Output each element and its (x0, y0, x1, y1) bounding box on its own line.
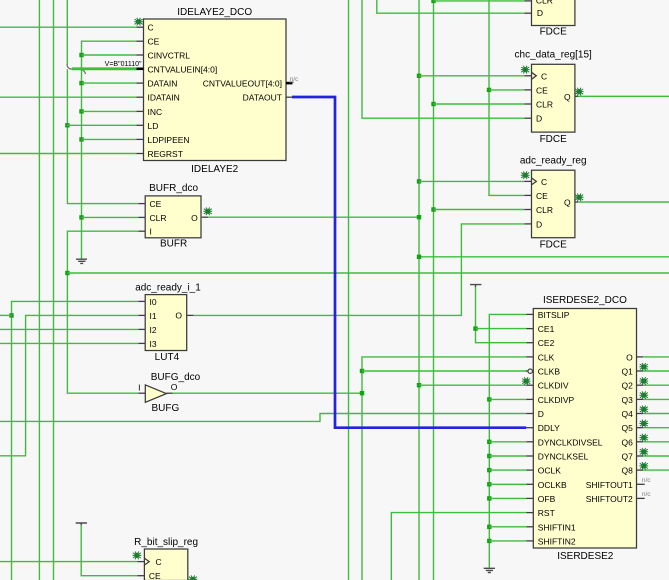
svg-text:CE1: CE1 (538, 324, 555, 334)
junction LD tap (65, 123, 69, 127)
pin stub Q5 (637, 427, 644, 429)
wire from T to CE2 (476, 287, 527, 343)
svg-text:adc_ready_reg: adc_ready_reg (520, 155, 587, 166)
wire Q5 output (643, 427, 669, 429)
pin stub adc CE (525, 194, 532, 196)
wire long net y=273 to right edge (67, 272, 669, 274)
debug bug icon at BUFR O (203, 207, 212, 215)
junction DYNCLKDIVSEL (487, 440, 491, 444)
svg-text:CE: CE (536, 85, 548, 95)
wire Q7 output (643, 455, 669, 457)
svg-text:Q1: Q1 (621, 367, 633, 377)
svg-text:Q7: Q7 (621, 452, 633, 462)
svg-text:CINVCTRL: CINVCTRL (148, 51, 191, 61)
wire I3 row (0, 342, 139, 344)
svg-text:DDLY: DDLY (538, 423, 560, 433)
junction BUFR CLR (79, 215, 83, 219)
debug bug icon at IDELAYE2 C (134, 18, 143, 26)
pin stub SHIFTIN2 (526, 540, 533, 542)
svg-text:C: C (156, 557, 162, 567)
debug bug icon at Q4 (639, 405, 648, 413)
pin stub I3 (139, 342, 146, 344)
pin stub Q1 (637, 370, 644, 372)
pin stub DYNCLKSEL (526, 455, 533, 457)
pin stub CINVCTRL (137, 54, 144, 56)
debug bug icon at R_bit C (133, 552, 142, 560)
svg-text:LUT4: LUT4 (155, 352, 180, 363)
component top partial FDCE (532, 0, 575, 38)
wire Q3 output (643, 398, 669, 400)
wire Q6 output (643, 441, 669, 443)
svg-text:ISERDESE2: ISERDESE2 (557, 551, 614, 562)
pin stub Q4 (637, 413, 644, 415)
pin stub Q8 (637, 469, 644, 471)
junction adc CLR (431, 207, 435, 211)
wire Q1 output (643, 370, 669, 372)
svg-text:RST: RST (538, 508, 555, 518)
pin stub RST (526, 512, 533, 514)
debug bug icon at adc C (521, 171, 530, 179)
pin stub LUT4 O (187, 314, 194, 316)
ground symbol below ISERDESE2 (484, 568, 495, 572)
wire top FDCE CLR row (434, 0, 525, 2)
power tie T left (76, 523, 87, 525)
pin stub chc Q (575, 95, 578, 97)
svg-text:SHIFTOUT2: SHIFTOUT2 (586, 494, 633, 504)
wire I0 row from riser x=11.5 (12, 301, 139, 580)
component R_bit_slip_reg FDCE (134, 537, 198, 580)
svg-text:CE2: CE2 (538, 338, 555, 348)
svg-text:CNTVALUEIN[4:0]: CNTVALUEIN[4:0] (148, 64, 218, 74)
pin stub Q3 (637, 398, 644, 400)
pin stub C (137, 26, 144, 28)
pin stub top FDCE CLR (525, 0, 532, 2)
wire chc Q output (578, 95, 669, 97)
junction BUFG O tap (360, 391, 364, 395)
wire vertical net x=419 (418, 0, 420, 580)
wire BUFG O to clock column (173, 392, 363, 394)
debug bug icon at Q5 (639, 420, 648, 428)
junction CINVCTRL (79, 53, 83, 57)
junction LDPIPEEN (79, 137, 83, 141)
wire adc CLR row (434, 209, 525, 211)
svg-text:OFB: OFB (538, 494, 556, 504)
wire vertical net x=81.5 (CE chain) (82, 41, 137, 258)
junction chc C (417, 74, 421, 78)
pin stub SHIFTOUT2 n/c (637, 497, 645, 499)
pin stub BUFR CE (139, 203, 146, 205)
wire DATAIN row (82, 82, 137, 84)
pin stub I1 (139, 314, 146, 316)
pin stub Q7 (637, 455, 644, 457)
pin stub CE2 (526, 342, 533, 344)
svg-text:BUFR_dco: BUFR_dco (149, 183, 198, 194)
wire INC row (82, 110, 137, 112)
svg-text:I: I (150, 227, 152, 237)
wire SHIFTIN1 row (489, 526, 526, 528)
svg-text:REGRST: REGRST (148, 149, 183, 159)
svg-text:DATAOUT: DATAOUT (243, 93, 282, 103)
svg-text:DYNCLKSEL: DYNCLKSEL (538, 452, 589, 462)
debug bug icon at Q7 (639, 448, 648, 456)
pin stub BITSLIP (526, 313, 533, 315)
wire LUT4 O to adc D (193, 224, 524, 316)
pin stub SHIFTIN1 (526, 526, 533, 528)
junction BUFR O (417, 215, 421, 219)
pin stub LDPIPEEN (137, 138, 144, 140)
pin stub Q2 (637, 384, 644, 386)
svg-text:CLKDIVP: CLKDIVP (538, 395, 575, 405)
svg-text:CLR: CLR (536, 205, 553, 215)
wire Q2 output (643, 384, 669, 386)
svg-text:I2: I2 (150, 325, 157, 335)
svg-text:DATAIN: DATAIN (148, 79, 178, 89)
wire vertical net B x=53.5 (53, 0, 55, 580)
wire Q4 output (643, 413, 669, 415)
svg-text:chc_data_reg[15]: chc_data_reg[15] (515, 49, 593, 60)
pin stub DATAOUT (286, 96, 292, 98)
junction DYNCLKSEL (487, 454, 491, 458)
wire IDATAIN row (0, 96, 137, 98)
wire chc C row (419, 75, 525, 77)
clock mark adc C (532, 178, 537, 185)
pin stub adc CLR (525, 209, 532, 211)
pin stub chc CLR (525, 103, 532, 105)
pin stub SHIFTOUT1 n/c (637, 483, 645, 485)
pin stub IDATAIN (137, 96, 144, 98)
wire from T down to R_bit CE (81, 525, 137, 575)
pin stub CLKB (526, 370, 529, 372)
wire RST net (391, 513, 526, 580)
ground symbol left (76, 259, 87, 263)
wire CINVCTRL row (82, 54, 137, 56)
svg-text:IDATAIN: IDATAIN (148, 93, 180, 103)
pin stub CE (137, 40, 144, 42)
junction SHIFTIN2 (487, 539, 491, 543)
debug bug icon at Q6 (639, 434, 648, 442)
svg-text:C: C (541, 71, 547, 81)
power tie T right (470, 285, 481, 287)
svg-text:OCLK: OCLK (538, 466, 561, 476)
pin stub DYNCLKDIVSEL (526, 441, 533, 443)
pin stub D (526, 413, 533, 415)
svg-text:OCLKB: OCLKB (538, 480, 567, 490)
svg-text:CLKB: CLKB (538, 367, 561, 377)
svg-text:CE: CE (149, 571, 161, 580)
pin stub LD (137, 124, 144, 126)
debug bug icon at CLKDIV (522, 377, 531, 385)
highlighted net DATAOUT to DDLY (blue) (292, 97, 526, 428)
debug bug icon at Q8 (639, 462, 648, 470)
junction chc CLR (431, 102, 435, 106)
svg-text:CE: CE (148, 37, 160, 47)
svg-text:I3: I3 (150, 339, 157, 349)
wire SHIFTIN2 row (489, 540, 526, 542)
wire D net with jog to ISERDES D (0, 414, 526, 422)
svg-text:I: I (138, 383, 140, 393)
svg-text:C: C (148, 23, 154, 33)
wire vertical mid net x=348.5 (348, 0, 350, 580)
bus ripper arc lower (81, 70, 86, 74)
debug bug icon at adc Q (575, 193, 584, 201)
wire BITSLIP to ground column (489, 314, 526, 567)
pin stub I2 (139, 328, 146, 330)
wire I2 row (0, 328, 139, 330)
svg-text:Q8: Q8 (621, 466, 633, 476)
pin stub chc CE (525, 89, 532, 91)
pin stub OCLK (526, 469, 533, 471)
wire stub into I0 riser from left edge (0, 314, 12, 316)
pin stub I0 (139, 300, 146, 302)
svg-text:SHIFTOUT1: SHIFTOUT1 (586, 480, 633, 490)
wire chc CE row (489, 89, 525, 91)
bus ripper arc upper (67, 64, 72, 69)
pin stub O right (637, 356, 644, 358)
svg-text:n/c: n/c (642, 477, 651, 484)
junction INC (79, 109, 83, 113)
wire vertical net x=433.5 (433, 0, 435, 580)
pin stub DDLY (526, 427, 533, 429)
wire REGRST row (0, 153, 137, 155)
svg-text:FDCE: FDCE (540, 240, 568, 251)
junction OCLKB (487, 482, 491, 486)
wire CLK net column x=362 (362, 357, 526, 580)
svg-text:IDELAYE2: IDELAYE2 (191, 164, 238, 175)
pin stub REGRST (137, 153, 144, 155)
svg-text:D: D (537, 8, 543, 18)
pin stub BUFR I (139, 230, 146, 232)
svg-text:O: O (191, 213, 198, 223)
svg-text:CLK: CLK (538, 352, 555, 362)
svg-text:Q4: Q4 (621, 409, 633, 419)
wire CE1 row (476, 328, 527, 330)
wire OFB row (489, 497, 526, 499)
svg-text:DYNCLKDIVSEL: DYNCLKDIVSEL (538, 437, 603, 447)
wire I1 row from riser x=25.6 (0, 315, 139, 455)
wire CLKDIVP row (489, 398, 526, 400)
wire vertical bus feed x=67.3 top (66, 0, 68, 65)
wire long net y=256.8 from x=419 to right edge (419, 256, 669, 258)
pin stub CLKDIV (526, 384, 533, 386)
pin stub CNTVALUEOUT n/c (286, 82, 293, 85)
svg-text:R_bit_slip_reg: R_bit_slip_reg (134, 537, 198, 548)
svg-text:ISERDESE2_DCO: ISERDESE2_DCO (543, 295, 627, 306)
svg-text:Q6: Q6 (621, 437, 633, 447)
svg-text:Q5: Q5 (621, 423, 633, 433)
component IDELAYE2_DCO U_IDELAYE2 (144, 7, 287, 175)
wire CLKDIV row (419, 384, 526, 386)
svg-text:SHIFTIN2: SHIFTIN2 (538, 536, 576, 546)
wire vertical net A x=39.4 (38, 0, 40, 580)
pin stub adc C (525, 180, 532, 182)
wire LD row (67, 124, 136, 126)
svg-text:BUFR: BUFR (160, 238, 187, 249)
debug bug icon at Q3 (639, 391, 648, 399)
svg-text:BUFG: BUFG (152, 403, 180, 414)
svg-text:n/c: n/c (642, 491, 651, 498)
pin stub BUFR O (202, 216, 209, 218)
svg-text:D: D (536, 114, 542, 124)
inversion bubble CLKB (528, 369, 532, 373)
svg-text:D: D (538, 409, 544, 419)
wire O output (643, 356, 669, 358)
svg-text:CE: CE (150, 199, 162, 209)
svg-text:O: O (626, 352, 633, 362)
component adc_ready_reg FDCE (520, 155, 587, 250)
debug bug icon at chc Q (575, 88, 584, 96)
pin stub BUFG O (166, 392, 172, 394)
debug bug icon at Q2 (639, 377, 648, 385)
pin stub CLKDIVP (526, 398, 533, 400)
wire R_bit_slip C row (0, 561, 137, 563)
junction CLKB tap (360, 369, 364, 373)
wire adc C row (419, 180, 525, 182)
wire BUFR CLR row (82, 216, 139, 218)
svg-text:Q2: Q2 (621, 381, 633, 391)
svg-text:Q3: Q3 (621, 395, 633, 405)
svg-text:INC: INC (148, 107, 163, 117)
svg-text:CLR: CLR (536, 100, 553, 110)
pin stub BUFR CLR (139, 216, 146, 218)
wire BUFR O to net column x=419 (208, 216, 419, 218)
debug bug icon at Q1 (639, 363, 648, 371)
svg-text:I0: I0 (150, 297, 157, 307)
pin stub DATAIN (137, 82, 144, 84)
debug bug icon at R_bit Q (189, 575, 198, 580)
svg-text:FDCE: FDCE (540, 27, 568, 38)
svg-text:CE: CE (536, 191, 548, 201)
pin stub INC (137, 110, 144, 112)
wire DYNCLKSEL row (489, 455, 526, 457)
svg-text:Q: Q (564, 198, 571, 208)
wire BUFR I / BUFG I net (67, 231, 138, 393)
junction SHIFTIN1 (487, 525, 491, 529)
pin stub OCLKB (526, 483, 533, 485)
bus CNTVALUEIN value wire (72, 67, 137, 70)
wire vertical clock net x=67.4 (to BUFR CE) (67, 69, 138, 203)
pin stub adc D (525, 223, 532, 225)
wire Q8 output (643, 469, 669, 471)
svg-text:CLR: CLR (536, 0, 553, 5)
component adc_ready_i_1 LUT4 (135, 283, 201, 364)
wire LDPIPEEN row (82, 138, 137, 140)
junction DATAIN (79, 81, 83, 85)
clock mark chc C (532, 72, 537, 79)
wire OCLK row (489, 469, 526, 471)
pin stub adc Q (575, 201, 578, 203)
component ISERDESE2_DCO (533, 295, 636, 562)
svg-text:LDPIPEEN: LDPIPEEN (148, 135, 190, 145)
debug bug icon at chc C (521, 66, 530, 74)
pin stub Q6 (637, 441, 644, 443)
pin stub R_bit CE (137, 575, 144, 577)
pin stub R_bit C (137, 561, 144, 563)
pin stub OFB (526, 497, 533, 499)
svg-text:CLR: CLR (150, 213, 167, 223)
junction net 256.8 (417, 255, 421, 259)
pin stub CE1 (526, 328, 533, 330)
junction OFB (487, 496, 491, 500)
wire CLKB row (362, 370, 526, 372)
wire chc CLR row (434, 103, 525, 105)
svg-text:adc_ready_i_1: adc_ready_i_1 (135, 283, 201, 294)
pin stub top FDCE D (525, 12, 532, 14)
junction CE1 (473, 326, 477, 330)
svg-text:SHIFTIN1: SHIFTIN1 (538, 522, 576, 532)
component BUFG_dco buffer (138, 372, 201, 414)
junction adc C (417, 179, 421, 183)
component chc_data_reg[15] FDCE (515, 49, 593, 145)
junction OCLK (487, 468, 491, 472)
junction top FDCE CLR (431, 0, 435, 3)
svg-text:BITSLIP: BITSLIP (538, 310, 570, 320)
wire C row IDELAYE2 (0, 26, 137, 28)
svg-text:O: O (175, 310, 182, 320)
junction at y=273 (65, 271, 69, 275)
junction I0 riser y=315.4 (9, 313, 13, 317)
pin stub BUFG I (139, 392, 146, 394)
pin stub chc C (525, 75, 532, 77)
pin stub CNTVALUEIN bus (137, 68, 144, 71)
wire top FDCE D net (377, 0, 525, 13)
svg-text:IDELAYE2_DCO: IDELAYE2_DCO (177, 7, 252, 18)
svg-text:C: C (541, 177, 547, 187)
junction CLKDIV (417, 383, 421, 387)
svg-text:V=B"01110": V=B"01110" (105, 61, 142, 68)
svg-text:CNTVALUEOUT[4:0]: CNTVALUEOUT[4:0] (203, 79, 282, 89)
svg-text:O: O (171, 382, 178, 392)
svg-text:D: D (536, 219, 542, 229)
junction chc CE (487, 88, 491, 92)
svg-text:FDCE: FDCE (540, 134, 568, 145)
pin stub CLK (526, 356, 533, 358)
svg-text:I1: I1 (150, 311, 157, 321)
component BUFR_dco (145, 183, 201, 250)
wire adc Q output (578, 201, 669, 203)
pin stub chc D (525, 117, 532, 119)
svg-text:CLKDIV: CLKDIV (538, 381, 569, 391)
wire chc D net from top (362, 0, 525, 118)
wire DYNCLKDIVSEL row (489, 441, 526, 443)
wire chc CE net from top (489, 0, 525, 195)
wire OCLKB row (489, 483, 526, 485)
clock mark R_bit C (144, 558, 149, 565)
svg-text:Q: Q (564, 92, 571, 102)
junction CLKDIVP (487, 397, 491, 401)
svg-text:LD: LD (148, 121, 159, 131)
